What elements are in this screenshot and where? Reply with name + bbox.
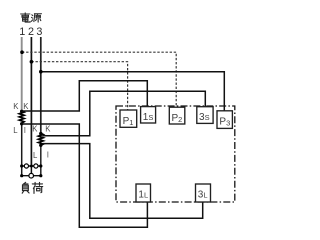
svg-text:1: 1	[19, 26, 25, 38]
svg-text:3: 3	[36, 26, 42, 38]
CT1 coil (zigzag on line 1)	[19, 111, 24, 124]
svg-text:1S: 1S	[143, 112, 154, 123]
svg-text:L: L	[13, 126, 18, 135]
svg-text:K: K	[45, 125, 51, 134]
CT1 k wire to 1S	[22, 81, 148, 111]
junction dot line1	[20, 50, 24, 54]
svg-text:3L: 3L	[198, 190, 208, 201]
load bus lower	[22, 175, 41, 177]
kanji 荷	[32, 182, 42, 193]
wire line 3 lower	[40, 146, 42, 176]
load terminal circle B	[34, 164, 38, 168]
terminal 3L	[196, 184, 211, 202]
wire line 1 (gray upper section)	[21, 37, 23, 111]
svg-text:3S: 3S	[199, 112, 210, 123]
label 電源 (power source)	[21, 13, 42, 22]
svg-text:l: l	[47, 151, 49, 160]
CT1 coil top dot	[20, 110, 23, 113]
kanji 源	[31, 14, 41, 22]
CT2 k wire to 3S	[43, 91, 206, 136]
CT2 coil top dot	[39, 132, 42, 135]
wire line 2 lower stub	[30, 166, 32, 173]
svg-text:L: L	[33, 151, 38, 160]
CT2 l wire to 3L	[43, 144, 203, 219]
wire line 2	[30, 37, 32, 166]
phase labels 1 2 3	[19, 26, 42, 38]
svg-text:K: K	[32, 125, 38, 134]
voltage wire line3 to P3	[41, 72, 225, 111]
load terminal circle C	[29, 173, 34, 178]
terminal P1	[120, 110, 137, 127]
kanji 電	[21, 13, 31, 22]
CT1 labels K k	[13, 102, 29, 135]
junction dot line2	[30, 60, 34, 64]
load terminal circle A	[24, 164, 28, 168]
CT1 coil bottom dot	[20, 122, 23, 125]
terminal 3S	[197, 107, 213, 124]
CT1 l wire to 1L	[22, 124, 148, 227]
CT2 coil (zigzag on line 3)	[38, 133, 43, 145]
terminal 1S	[141, 107, 156, 123]
svg-text:1L: 1L	[138, 190, 148, 201]
junction dot line3	[39, 70, 43, 74]
kanji 負	[22, 182, 29, 193]
load bus upper	[22, 165, 41, 167]
svg-text:P3: P3	[219, 117, 230, 128]
dashed voltage wire line1 to P2	[22, 52, 176, 107]
svg-text:K: K	[13, 102, 19, 111]
svg-text:P1: P1	[123, 116, 134, 127]
terminal 1L	[136, 184, 151, 202]
svg-text:P2: P2	[172, 113, 183, 124]
wire line 1 lower section	[21, 124, 23, 176]
svg-text:2: 2	[28, 26, 34, 38]
CT2 labels K k	[32, 125, 51, 161]
dashed voltage wire line2 to P1	[31, 62, 127, 110]
label 負荷 (load)	[22, 182, 42, 193]
terminal P2	[169, 107, 185, 124]
terminal P3	[217, 111, 232, 129]
meter enclosure dash-dot outline	[116, 106, 235, 202]
svg-text:l: l	[24, 126, 26, 135]
load bus junction dots	[20, 164, 42, 177]
svg-text:K: K	[23, 102, 29, 111]
wire line 3 upper	[40, 37, 42, 133]
CT2 coil bottom dot	[39, 144, 42, 147]
